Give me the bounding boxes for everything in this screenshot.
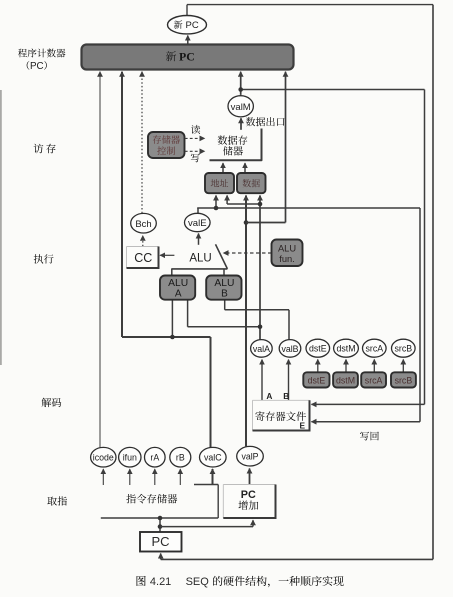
node srcB [392, 339, 416, 357]
node valC [200, 447, 227, 467]
wire valP branch to newPC bar [285, 72, 287, 223]
wire srcB box to ellipse [402, 360, 404, 373]
svg-text:dstE: dstE [308, 375, 326, 385]
node valE/addr junction [214, 206, 219, 211]
caption 图4.21 [137, 576, 146, 586]
wire newPC feedback: top horizontal [187, 4, 433, 6]
wire dstE box to ellipse [317, 360, 319, 373]
svg-text:PC: PC [151, 534, 169, 549]
wire PC into PC-increment [252, 520, 254, 526]
register id box srcA [361, 372, 386, 387]
label 数据 [243, 179, 251, 187]
ALU A box [160, 276, 195, 300]
svg-text:CC: CC [134, 251, 152, 265]
wire valM to newPC bar [240, 72, 242, 95]
svg-text:dstE: dstE [309, 344, 327, 354]
register id box srcB [391, 372, 416, 387]
svg-text:valM: valM [231, 102, 251, 113]
label 执行 [34, 254, 43, 263]
label (PC) [27, 61, 30, 70]
wire icode to newPC [99, 72, 101, 448]
wire valC branch to ALU A [171, 300, 173, 337]
svg-text:dstM: dstM [336, 344, 355, 354]
node icode [91, 447, 116, 467]
svg-text:valB: valB [281, 344, 298, 354]
data memory bracket [210, 129, 262, 161]
wire write dashed [185, 150, 205, 152]
label 解码 [42, 398, 52, 407]
svg-text:PC: PC [179, 50, 195, 64]
wire valB riser [288, 310, 290, 341]
condition code CC box [127, 247, 159, 269]
memory control box [148, 132, 185, 158]
svg-text:B: B [221, 288, 228, 299]
wire valC vertical to bar [121, 72, 123, 337]
svg-text:A: A [175, 288, 182, 299]
wire valE into register file port E [312, 421, 421, 423]
svg-text:ALU: ALU [214, 278, 234, 289]
wire register file port B to valB [288, 360, 290, 401]
node dstE [306, 339, 330, 357]
wire newPC feedback: right vertical [432, 5, 434, 560]
node PC/pc-incr junction [158, 524, 163, 529]
wire ALU B input drop [224, 300, 226, 310]
wire valC riser [210, 337, 212, 447]
wire valM branch right [241, 89, 425, 91]
svg-text:srcA: srcA [365, 375, 383, 385]
node valM branch junction [238, 87, 243, 92]
svg-text:B: B [283, 391, 289, 401]
wire valA branch into mem addr [226, 196, 228, 205]
label 程序计数器 [18, 49, 27, 58]
node valE [185, 213, 211, 231]
wire newPC feedback top [186, 5, 188, 17]
wire valP branch horizontal [246, 222, 286, 224]
wire ALU fun to ALU (dashed) [224, 252, 272, 254]
svg-text:fun.: fun. [279, 254, 295, 264]
svg-text:PC: PC [186, 20, 199, 31]
wire instruction memory right edge [217, 485, 219, 519]
node newPC ellipse [168, 16, 207, 34]
wire instruction memory bottom bus [101, 517, 218, 519]
wire instruction memory to valC [212, 469, 214, 485]
wire newPC into PC register [160, 554, 162, 560]
node valB [279, 340, 301, 358]
wire Bch to newPC (dotted) [141, 72, 143, 213]
mem addr port box [205, 173, 234, 193]
ALU B box [206, 276, 241, 300]
wire instruction memory to ifun [129, 469, 131, 485]
label 读 [191, 125, 200, 134]
label 地址 [211, 179, 219, 187]
wire instruction memory to rA [154, 469, 156, 485]
wire srcA box to ellipse [373, 360, 375, 373]
label 写回 [360, 432, 369, 441]
wire ALU B output into ALU [223, 269, 225, 276]
svg-text:srcB: srcB [395, 344, 413, 354]
node PC/imem junction [158, 516, 163, 521]
svg-text:E: E [300, 421, 306, 431]
mem data port box [237, 173, 266, 193]
wire valE to mem addr [215, 196, 217, 209]
wire mem data to data memory [244, 163, 246, 173]
svg-text:ALU: ALU [189, 252, 211, 264]
wire mem addr to data memory [222, 163, 224, 173]
wire dstM box to ellipse [345, 360, 347, 373]
wire CC to Bch (dotted) [142, 236, 144, 247]
svg-text:valP: valP [241, 452, 258, 462]
wire valB horizontal [225, 309, 289, 311]
svg-text:A: A [266, 391, 272, 401]
wire valA branch to ALU A horizontal [188, 326, 260, 328]
label 数据出口 [246, 117, 255, 126]
svg-text:icode: icode [93, 453, 114, 463]
wire instruction memory top-right segment [194, 484, 218, 486]
svg-text:dstM: dstM [336, 375, 355, 385]
register id box dstE [303, 372, 329, 387]
svg-text:ALU: ALU [168, 278, 188, 289]
wire valM into register file port M [312, 403, 425, 405]
label 访存 [34, 144, 44, 154]
svg-text:srcA: srcA [366, 344, 384, 354]
wire instruction memory to rB [179, 469, 181, 485]
wire PC to PC-increment horizontal [160, 526, 253, 528]
node ifun [119, 447, 141, 467]
svg-text:ifun: ifun [123, 453, 137, 463]
node rB [170, 447, 191, 467]
wire ALU into valE [198, 234, 200, 245]
node valP branch junction [244, 220, 249, 225]
node dstM [334, 339, 359, 357]
wire newPC feedback: bottom horizontal [161, 558, 433, 560]
wire ALU A output into ALU [171, 269, 173, 276]
svg-text:valE: valE [188, 218, 206, 229]
svg-text:srcB: srcB [395, 375, 413, 385]
node valA/ALU-A junction [258, 325, 263, 330]
label 指令存储器 [126, 494, 136, 503]
label 取指 [47, 497, 57, 506]
node valP [237, 446, 264, 466]
wire valC horizontal [122, 336, 211, 338]
label 寄存器文件 [255, 411, 264, 421]
svg-text:SEQ: SEQ [186, 576, 210, 588]
wire valP vertical [245, 196, 247, 447]
svg-text:valA: valA [253, 344, 270, 354]
node Bch [131, 213, 157, 233]
wire valE right vertical [419, 208, 421, 422]
wire valA branch to mem addr horizontal [227, 203, 260, 205]
svg-text:valC: valC [204, 453, 222, 463]
svg-text:Bch: Bch [135, 219, 151, 230]
wire valE stub [197, 208, 199, 214]
wire data-out into valM [240, 118, 242, 130]
label 写 [191, 153, 200, 162]
svg-text:4.21: 4.21 [150, 576, 171, 588]
node rA [145, 447, 166, 467]
wire valA branch into ALU A [187, 300, 189, 327]
register file box [253, 400, 310, 430]
wire PC output riser [159, 518, 161, 532]
label 存储器控制 [153, 135, 161, 144]
ALU fun box [272, 240, 303, 267]
svg-text:rB: rB [176, 453, 185, 463]
wire register file port A to valA [261, 360, 263, 401]
PC register box [140, 532, 182, 552]
node srcA [363, 339, 387, 357]
wire instruction memory to icode [102, 469, 104, 485]
wire newPC bar to ellipse [187, 36, 189, 45]
svg-text:rA: rA [150, 453, 159, 463]
wire read dashed [185, 137, 205, 139]
node valA [251, 340, 273, 358]
PC increment box [223, 485, 275, 519]
svg-text:PC: PC [241, 489, 256, 501]
node valA/addr-branch junction [258, 202, 263, 207]
wire PC increment to valP [249, 469, 251, 485]
node valC/ALU-A junction [170, 335, 175, 340]
register newPC bar [82, 45, 294, 70]
wire valE horizontal [197, 207, 420, 209]
wire ALU to CC [160, 254, 174, 256]
label 新PC on bar [166, 51, 176, 61]
ALU shape [171, 268, 227, 270]
register id box dstM [333, 372, 358, 387]
svg-text:ALU: ALU [278, 244, 296, 254]
svg-text:PC: PC [30, 61, 44, 72]
node valM [228, 96, 253, 117]
wire valA vertical [259, 196, 261, 341]
data memory label [218, 135, 228, 144]
scan edge artifact [0, 90, 2, 365]
wire valM right vertical [424, 90, 426, 405]
